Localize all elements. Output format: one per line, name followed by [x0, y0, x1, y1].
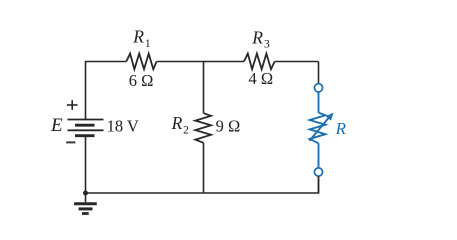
svg-text:R: R	[132, 26, 144, 46]
minus sign	[66, 141, 75, 143]
value label 4 ohm	[249, 69, 274, 88]
wire ground stub	[85, 193, 87, 202]
junction dot at ground node	[83, 191, 88, 196]
variable resistor R (blue, with arrow)	[309, 113, 333, 144]
svg-text:E: E	[50, 115, 63, 136]
svg-text:1: 1	[145, 38, 151, 50]
svg-text:18 V: 18 V	[107, 116, 139, 135]
wire right branch bottom (terminal b to bottom wire)	[318, 176, 320, 193]
label R (blue)	[335, 119, 347, 138]
label R3	[251, 27, 270, 50]
wire top-left segment (E plus terminal to R1)	[86, 62, 127, 120]
wire bottom (ground node to right branch)	[86, 176, 319, 193]
svg-text:3: 3	[264, 39, 270, 51]
resistor R1	[126, 54, 156, 70]
terminal b (open circle)	[314, 168, 322, 176]
resistor R3	[244, 54, 275, 70]
wire blue top lead (terminal a to variable resistor)	[318, 92, 320, 113]
voltage source E battery plates	[68, 120, 104, 136]
value label 9 ohm	[216, 116, 241, 135]
terminal a (open circle)	[314, 84, 322, 92]
label R1	[132, 26, 151, 50]
resistor R2	[195, 113, 211, 143]
wire left branch bottom (battery minus to ground node)	[85, 136, 87, 193]
svg-text:R: R	[335, 119, 347, 138]
wire middle branch top (top node to R2)	[203, 62, 205, 114]
wire middle branch bottom (R2 to bottom wire)	[203, 143, 205, 193]
wire right branch top (top node down to terminal a)	[318, 62, 320, 84]
plus sign	[67, 100, 78, 110]
label E	[50, 115, 63, 136]
value label 18 V	[107, 116, 139, 135]
svg-text:R: R	[251, 27, 263, 47]
wire top-right segment (R3 to terminal branch)	[275, 61, 319, 63]
svg-text:4 Ω: 4 Ω	[249, 69, 274, 88]
wire blue bottom lead (variable resistor to terminal b)	[318, 143, 320, 168]
svg-text:R: R	[171, 113, 183, 133]
wire top-middle segment (R1 to R3 through top node of R2)	[157, 61, 244, 63]
svg-text:9 Ω: 9 Ω	[216, 116, 241, 135]
svg-text:6 Ω: 6 Ω	[129, 71, 154, 90]
label R2	[171, 113, 190, 136]
value label 6 ohm	[129, 71, 154, 90]
ground	[74, 204, 97, 214]
svg-text:2: 2	[183, 124, 189, 136]
